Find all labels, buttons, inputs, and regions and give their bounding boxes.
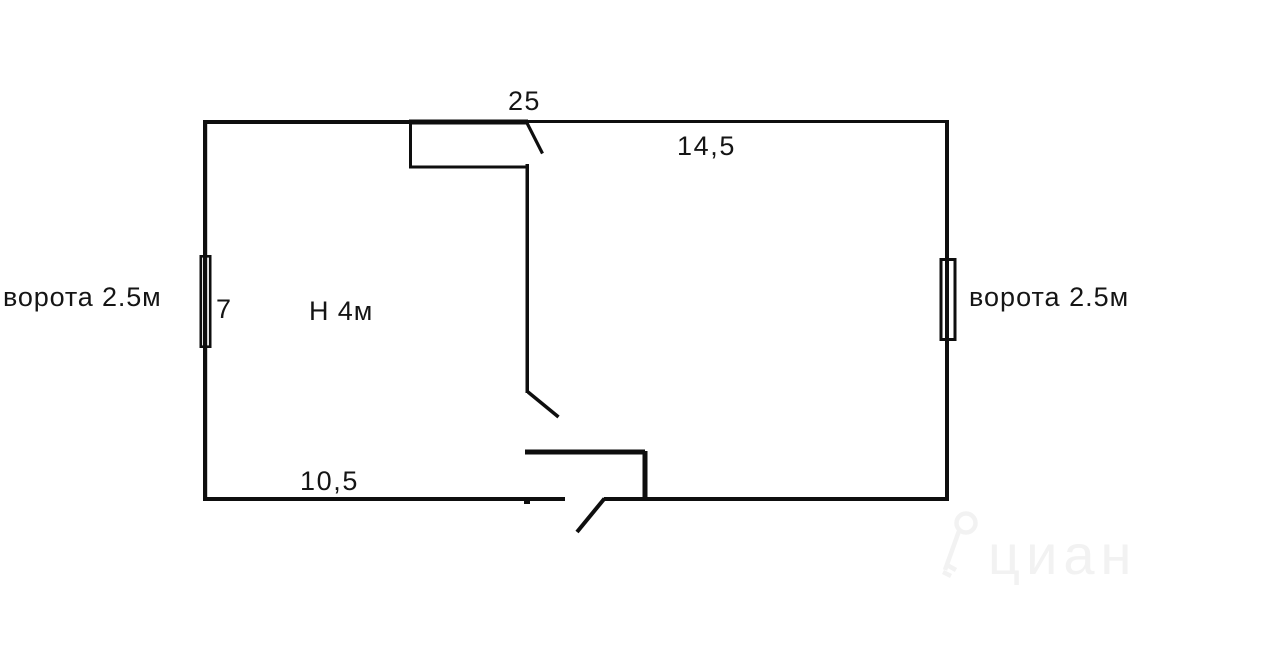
- vestibule bottom wall: [409, 166, 528, 169]
- label 25: [508, 88, 541, 115]
- vestibule left wall: [409, 124, 412, 168]
- gate left: [201, 256, 210, 346]
- wall right: [945, 120, 949, 501]
- wall bottom left segment: [203, 497, 565, 501]
- door swing bottom: [577, 499, 605, 533]
- label gate right: [969, 284, 1129, 311]
- door swing top: [527, 123, 543, 154]
- wall bottom right segment: [604, 497, 949, 501]
- label gate left: [3, 284, 162, 311]
- gate right: [941, 260, 955, 340]
- label 10,5: [300, 468, 359, 495]
- storeroom right wall: [643, 451, 648, 498]
- wall top right part: [528, 120, 949, 123]
- wall top thick part over vestibule: [409, 120, 528, 125]
- wall left: [203, 120, 207, 501]
- label 14,5: [677, 133, 736, 160]
- svg-text:циан: циан: [988, 523, 1137, 586]
- label H 4m: [309, 298, 373, 325]
- storeroom top wall: [525, 450, 645, 455]
- wall tick: [524, 499, 530, 504]
- label 7: [216, 296, 231, 323]
- wall top left part: [203, 120, 528, 124]
- door swing middle: [528, 392, 559, 417]
- partition vertical wall: [526, 164, 530, 393]
- watermark key icon: [943, 514, 976, 577]
